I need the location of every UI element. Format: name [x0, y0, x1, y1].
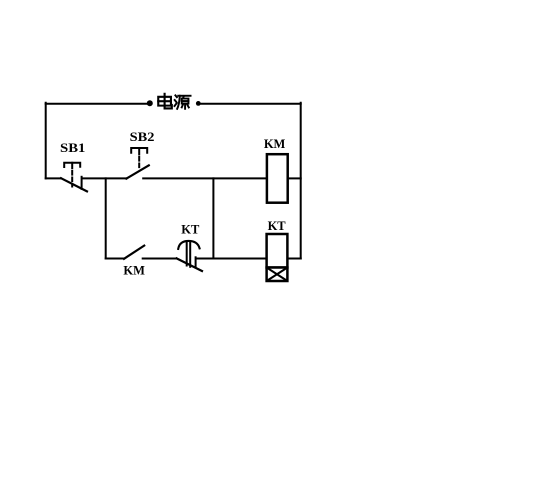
svg-text:KT: KT: [181, 223, 200, 237]
svg-text:SB2: SB2: [130, 130, 155, 144]
svg-text:SB1: SB1: [60, 141, 85, 155]
svg-text:KM: KM: [123, 264, 145, 278]
svg-text:KM: KM: [264, 137, 286, 151]
svg-text:KT: KT: [268, 219, 287, 233]
